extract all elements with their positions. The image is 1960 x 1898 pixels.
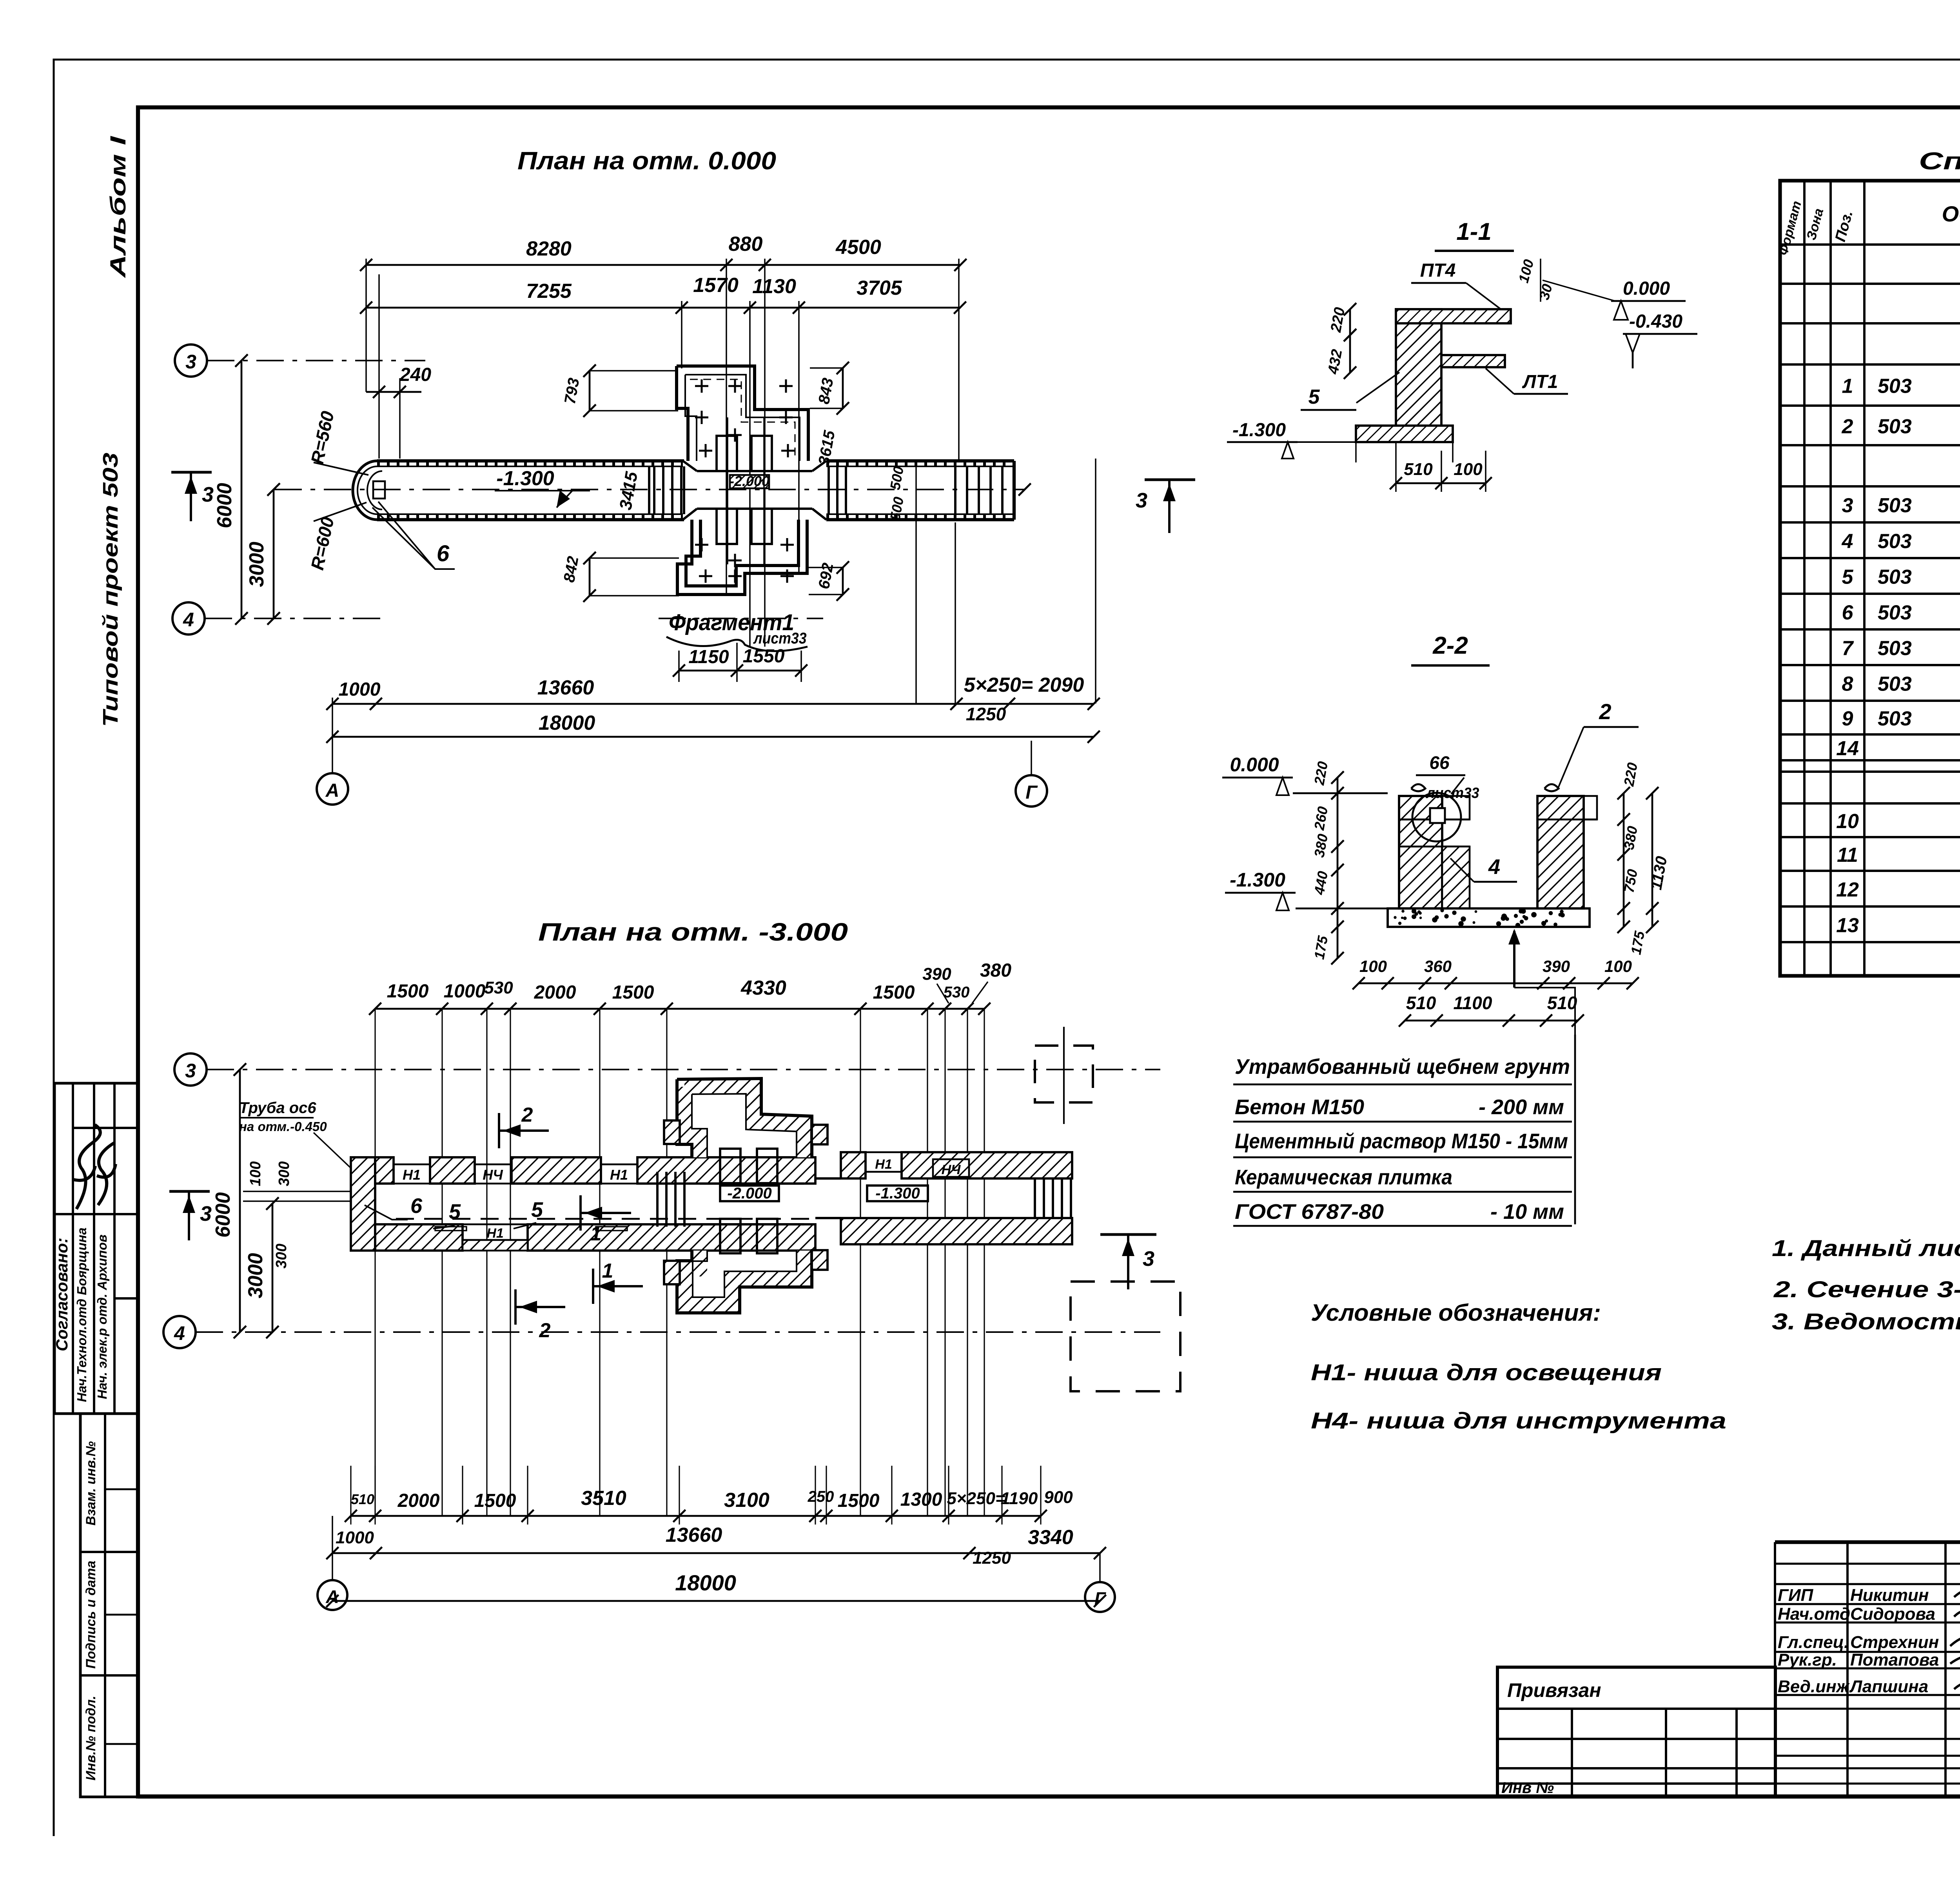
svg-text:на отм.-0.450: на отм.-0.450 <box>239 1119 327 1134</box>
svg-text:0.000: 0.000 <box>1230 754 1279 776</box>
stair block left <box>653 466 655 514</box>
svg-text:Н4- ниша для инструмента: Н4- ниша для инструмента <box>1311 1408 1726 1434</box>
svg-text:Стрехнин: Стрехнин <box>1850 1633 1939 1652</box>
section mark 2 (above corridor) <box>498 1113 500 1148</box>
svg-text:18000: 18000 <box>675 1570 736 1595</box>
axis 4 circle <box>172 602 205 634</box>
svg-text:А: А <box>325 1586 339 1607</box>
svg-text:3340: 3340 <box>1028 1526 1073 1549</box>
svg-text:9: 9 <box>1842 707 1853 730</box>
svg-text:2-2: 2-2 <box>1432 632 1468 659</box>
svg-text:Н1- ниша для освещения: Н1- ниша для освещения <box>1311 1360 1662 1385</box>
svg-text:Нач.отд: Нач.отд <box>1778 1604 1850 1624</box>
svg-text:2: 2 <box>539 1319 551 1342</box>
axis Г circle (bottom plan) <box>1085 1582 1115 1612</box>
svg-text:503: 503 <box>1878 375 1912 398</box>
svg-text:14: 14 <box>1836 737 1859 760</box>
axis 3 dash-dot (bottom plan) <box>174 1053 207 1086</box>
svg-text:100: 100 <box>1454 460 1483 479</box>
svg-text:Керамическая плитка: Керамическая плитка <box>1235 1166 1452 1189</box>
four pile rects lower <box>717 509 737 544</box>
svg-text:0.000: 0.000 <box>1623 278 1670 299</box>
svg-text:18000: 18000 <box>539 712 595 734</box>
svg-text:1500: 1500 <box>838 1490 880 1511</box>
svg-text:5: 5 <box>1308 386 1320 408</box>
svg-text:503: 503 <box>1878 673 1912 696</box>
pile rects (bottom plan cross) <box>720 1149 740 1183</box>
left margin stamp: Взам/Подпись/Инв table <box>80 1414 138 1797</box>
svg-text:Бетон М150: Бетон М150 <box>1235 1095 1364 1119</box>
svg-text:-1.300: -1.300 <box>496 467 554 490</box>
svg-text:1: 1 <box>602 1260 613 1282</box>
svg-text:Потапова: Потапова <box>1850 1650 1939 1670</box>
vertical dims 6000 / 3000 (bottom plan) <box>239 1070 241 1332</box>
svg-text:2. Сечение 3-3 см. лист 35.: 2. Сечение 3-3 см. лист 35. <box>1773 1277 1960 1302</box>
svg-text:Согласовано:: Согласовано: <box>53 1238 71 1351</box>
svg-text:503: 503 <box>1878 530 1912 553</box>
svg-text:390: 390 <box>922 964 951 984</box>
svg-text:6: 6 <box>410 1194 423 1218</box>
svg-text:Подпись и дата: Подпись и дата <box>83 1561 98 1669</box>
svg-text:503: 503 <box>1878 637 1912 660</box>
svg-text:3: 3 <box>185 351 196 373</box>
dim 1000 | 13660 | (5x250=2090)/1250 <box>332 703 1094 705</box>
svg-text:3: 3 <box>1136 489 1147 512</box>
svg-text:А: А <box>325 780 339 801</box>
svg-text:360: 360 <box>1424 957 1452 975</box>
svg-text:503: 503 <box>1878 494 1912 517</box>
svg-text:6000: 6000 <box>213 483 236 528</box>
svg-text:Нач. элек.р отд. Архипов: Нач. элек.р отд. Архипов <box>95 1235 109 1399</box>
extension lines <box>365 259 367 392</box>
svg-text:503: 503 <box>1878 602 1912 624</box>
svg-text:1000: 1000 <box>339 679 381 700</box>
svg-text:2: 2 <box>1842 415 1853 438</box>
svg-text:ГИП: ГИП <box>1778 1586 1814 1605</box>
svg-text:Н1: Н1 <box>486 1226 503 1241</box>
svg-text:Н1: Н1 <box>403 1167 421 1183</box>
level boxes <box>720 1186 779 1201</box>
bottom wall segments <box>375 1224 463 1251</box>
svg-text:7: 7 <box>1842 637 1854 660</box>
svg-text:240: 240 <box>399 364 431 385</box>
svg-text:3: 3 <box>202 483 214 506</box>
bottom plan dim row B <box>332 1552 1100 1554</box>
svg-text:Альбом I: Альбом I <box>105 136 130 279</box>
svg-text:100: 100 <box>247 1161 264 1186</box>
right pier <box>1537 796 1584 908</box>
left pier <box>1399 796 1442 908</box>
svg-text:Г: Г <box>1094 1588 1106 1609</box>
svg-text:Утрамбованный щебнем грунт: Утрамбованный щебнем грунт <box>1235 1055 1570 1079</box>
left end wall block <box>351 1157 375 1251</box>
svg-text:5: 5 <box>449 1200 461 1224</box>
svg-text:510: 510 <box>1404 460 1433 479</box>
svg-text:1100: 1100 <box>1454 993 1492 1013</box>
svg-text:- 200 мм: - 200 мм <box>1479 1095 1564 1119</box>
svg-text:530: 530 <box>484 978 513 997</box>
dims 1150 | 1550 <box>679 670 801 672</box>
svg-text:510: 510 <box>1547 993 1577 1013</box>
svg-text:503: 503 <box>1878 415 1912 438</box>
axis 4 dash-dot (bottom plan) <box>163 1316 196 1348</box>
svg-text:1500: 1500 <box>612 982 654 1003</box>
svg-text:390: 390 <box>1543 957 1570 975</box>
foundation block <box>1356 426 1453 442</box>
svg-text:1: 1 <box>590 1222 602 1245</box>
svg-text:5: 5 <box>1842 566 1854 589</box>
svg-text:4: 4 <box>174 1322 185 1344</box>
svg-text:Рук.гр.: Рук.гр. <box>1778 1650 1837 1670</box>
svg-text:1-1: 1-1 <box>1456 218 1492 245</box>
rail mark on left pier <box>1411 784 1425 791</box>
bottom plan dim row 18000 <box>332 1600 1100 1602</box>
corridor walls double lines <box>377 459 684 462</box>
svg-text:План на отм. 0.000: План на отм. 0.000 <box>517 147 776 175</box>
section mark 3 (left, bottom plan) <box>169 1190 210 1193</box>
svg-text:2: 2 <box>1599 699 1611 724</box>
title block outline <box>1775 1540 1960 1544</box>
svg-text:Условные обозначения:: Условные обозначения: <box>1311 1300 1601 1326</box>
svg-text:3: 3 <box>1842 494 1853 517</box>
svg-text:Нач.Технол.отд Боярщина: Нач.Технол.отд Боярщина <box>74 1227 89 1402</box>
svg-text:1190: 1190 <box>1001 1489 1038 1508</box>
top wall segments with niches <box>375 1157 394 1184</box>
svg-text:Н1: Н1 <box>610 1167 628 1183</box>
bottom dims (2-2) <box>1359 983 1633 984</box>
svg-text:3: 3 <box>1143 1247 1154 1271</box>
cross pit outline (bottom plan) <box>684 1086 804 1157</box>
interior leaders 6,5,5 <box>365 1205 408 1220</box>
svg-text:530: 530 <box>944 984 970 1001</box>
stair block mid-right <box>828 466 830 514</box>
section mark 1 (interior) <box>579 1195 582 1231</box>
section 1-1 body <box>1396 309 1441 428</box>
signature table <box>1774 1542 1776 1796</box>
cap inner detail <box>373 481 385 499</box>
svg-text:Гл.спец.: Гл.спец. <box>1778 1633 1849 1652</box>
svg-text:3. Ведомость расхода стали с: 3. Ведомость расхода стали см. лист 36 <box>1772 1309 1960 1334</box>
svg-text:503: 503 <box>1878 566 1912 589</box>
svg-text:1500: 1500 <box>387 981 429 1002</box>
svg-text:План на отм. -3.000: План на отм. -3.000 <box>538 918 848 946</box>
-2.000 level box (hatched) <box>730 475 769 488</box>
svg-text:3: 3 <box>185 1060 196 1082</box>
svg-text:10: 10 <box>1836 810 1859 833</box>
svg-text:Труба ос6: Труба ос6 <box>239 1099 316 1117</box>
svg-text:4: 4 <box>1488 855 1500 879</box>
svg-text:503: 503 <box>1878 707 1912 730</box>
axis A circle (top plan) <box>317 773 348 805</box>
vertical dim 6000 / 3000 between axes <box>241 361 243 618</box>
bottom plan: top dim row <box>375 1008 984 1010</box>
svg-text:4330: 4330 <box>740 977 786 999</box>
corridor left rounded cap R=560/R=600 <box>353 461 377 520</box>
svg-text:Г: Г <box>1025 782 1038 803</box>
svg-text:Сидорова: Сидорова <box>1850 1604 1935 1624</box>
svg-text:1250: 1250 <box>966 704 1006 724</box>
svg-text:13660: 13660 <box>537 676 594 699</box>
svg-text:3: 3 <box>200 1202 212 1225</box>
taper out right <box>812 461 826 471</box>
section mark 3 (right, bottom plan) <box>1100 1233 1156 1236</box>
svg-text:100: 100 <box>1604 957 1632 975</box>
dashed pit rectangle below <box>1071 1282 1180 1391</box>
svg-text:НЧ: НЧ <box>942 1162 961 1177</box>
bottom plan dim row A <box>351 1515 1041 1517</box>
channel through cross <box>700 1182 804 1185</box>
svg-text:Типовой проект 503: Типовой проект 503 <box>99 453 122 727</box>
corridor centreline <box>274 489 1025 490</box>
svg-text:Вед.инж: Вед.инж <box>1778 1677 1850 1696</box>
svg-text:880: 880 <box>729 233 763 256</box>
svg-text:1000: 1000 <box>336 1528 374 1547</box>
svg-text:ПТ4: ПТ4 <box>1420 260 1456 281</box>
centre vertical lines through cross <box>727 417 728 564</box>
stair stripes left of cross <box>656 1172 659 1227</box>
corridor interior dashed hidden line <box>396 1218 815 1220</box>
svg-text:- 10 мм: - 10 мм <box>1490 1200 1564 1224</box>
svg-text:Взам. инв.№: Взам. инв.№ <box>83 1441 98 1525</box>
svg-text:2000: 2000 <box>397 1490 440 1511</box>
svg-text:3510: 3510 <box>581 1487 626 1510</box>
svg-text:1150: 1150 <box>688 647 729 667</box>
axis A circle (bottom plan) <box>318 1580 347 1610</box>
dashed pit rectangle on axis 3 <box>1035 1046 1093 1102</box>
svg-text:2: 2 <box>521 1104 533 1126</box>
svg-text:1250: 1250 <box>973 1548 1011 1568</box>
svg-text:900: 900 <box>1044 1488 1073 1507</box>
svg-text:4500: 4500 <box>835 236 881 259</box>
svg-text:Обозначение: Обозначение <box>1942 201 1960 226</box>
top plan: dim row 8280|880|4500 <box>366 264 960 266</box>
привязан sub-table <box>1497 1667 1775 1796</box>
svg-text:Привязан: Привязан <box>1507 1679 1601 1701</box>
ground arrow up <box>1513 931 1515 988</box>
svg-text:7255: 7255 <box>526 280 572 303</box>
axis Г circle (top plan) <box>1016 775 1047 807</box>
svg-text:13660: 13660 <box>666 1524 722 1546</box>
svg-text:1500: 1500 <box>474 1490 516 1511</box>
svg-text:1. Данный лист см. с листам: 1. Данный лист см. с листами 18,19,33...… <box>1772 1236 1960 1261</box>
svg-text:100: 100 <box>1359 957 1387 975</box>
svg-text:1: 1 <box>1842 375 1853 398</box>
svg-text:1570: 1570 <box>693 274 739 297</box>
svg-text:1000: 1000 <box>444 981 486 1002</box>
taper into centre channel <box>683 461 697 471</box>
svg-text:6: 6 <box>437 541 450 566</box>
svg-text:-0.430: -0.430 <box>1629 311 1682 332</box>
svg-text:2000: 2000 <box>534 982 576 1003</box>
plus marks in cross <box>695 385 708 387</box>
svg-text:8: 8 <box>1842 673 1853 696</box>
svg-text:1300: 1300 <box>900 1489 942 1510</box>
niche small marks on floor <box>435 1227 466 1231</box>
svg-text:300: 300 <box>276 1161 292 1186</box>
svg-text:НЧ: НЧ <box>483 1167 503 1183</box>
svg-text:250: 250 <box>808 1488 834 1505</box>
svg-text:1130: 1130 <box>752 275 796 298</box>
svg-text:Инв №: Инв № <box>1501 1779 1554 1796</box>
svg-text:66: 66 <box>1429 752 1450 773</box>
svg-text:3100: 3100 <box>724 1489 769 1512</box>
svg-text:13: 13 <box>1836 914 1859 937</box>
niche boxes with labels (top wall) <box>394 1164 430 1184</box>
svg-text:Цементный раствор М150 - 15мм: Цементный раствор М150 - 15мм <box>1235 1129 1568 1153</box>
svg-text:ГОСТ 6787-80: ГОСТ 6787-80 <box>1235 1200 1384 1224</box>
spec table frame <box>1780 181 1960 976</box>
dim 240 <box>378 274 380 459</box>
svg-text:8280: 8280 <box>526 237 572 260</box>
stripes right end <box>1034 1178 1036 1218</box>
svg-text:Никитин: Никитин <box>1850 1586 1929 1605</box>
svg-text:300: 300 <box>273 1244 290 1268</box>
svg-text:5×250= 2090: 5×250= 2090 <box>964 674 1084 696</box>
svg-text:12: 12 <box>1836 879 1859 901</box>
svg-text:3000: 3000 <box>244 1253 267 1298</box>
section marks 1,2 (below corridor) <box>592 1269 594 1304</box>
svg-text:-1.300: -1.300 <box>875 1185 920 1202</box>
stair block right end <box>954 466 956 514</box>
svg-text:4: 4 <box>183 609 194 631</box>
svg-text:Лапшина: Лапшина <box>1849 1677 1928 1696</box>
section mark 3 (right) <box>1145 478 1195 481</box>
right corridor (bottom plan) <box>841 1152 866 1178</box>
base slab with speckles <box>1388 908 1590 927</box>
four pile rects upper <box>717 436 737 471</box>
svg-text:Спецификация фундамента Ф04: Спецификация фундамента Ф04 <box>1919 148 1960 175</box>
svg-text:1550: 1550 <box>743 646 785 667</box>
svg-text:6000: 6000 <box>212 1192 234 1238</box>
foundation pit cross outline (top plan) <box>677 366 808 461</box>
svg-text:ЛТ1: ЛТ1 <box>1522 372 1558 392</box>
svg-text:380: 380 <box>980 960 1011 981</box>
svg-text:-1.300: -1.300 <box>1232 420 1286 441</box>
svg-text:3705: 3705 <box>857 277 902 299</box>
left margin stamp: Согласовано table <box>54 1083 138 1414</box>
svg-text:лист33: лист33 <box>753 630 807 647</box>
bottom dims 510 / 100 <box>1396 482 1486 484</box>
svg-text:5×250=: 5×250= <box>947 1489 1005 1508</box>
svg-text:510: 510 <box>351 1491 374 1507</box>
section mark 3 (left) <box>171 471 212 473</box>
leader 6 <box>378 502 455 569</box>
svg-text:1500: 1500 <box>873 982 915 1003</box>
top plan: dim row 7255|1570|1130|3705 <box>366 307 960 309</box>
svg-text:11: 11 <box>1837 844 1858 867</box>
axis 3 circle <box>175 344 207 377</box>
svg-text:6: 6 <box>1842 602 1854 624</box>
svg-text:3000: 3000 <box>245 542 268 587</box>
svg-text:4: 4 <box>1842 530 1853 553</box>
svg-text:-2.000: -2.000 <box>727 1185 771 1202</box>
svg-text:Инв.№ подл.: Инв.№ подл. <box>83 1696 98 1781</box>
svg-text:-1.300: -1.300 <box>1230 869 1285 891</box>
dim 18000 <box>332 736 1094 738</box>
svg-text:510: 510 <box>1406 993 1436 1013</box>
svg-text:Н1: Н1 <box>875 1157 892 1172</box>
